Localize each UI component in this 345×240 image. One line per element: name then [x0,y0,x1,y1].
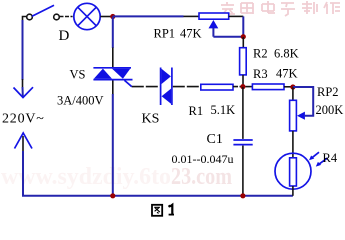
wire: RP1 right to node [229,16,244,36]
svg-text:R2: R2 [253,47,268,61]
svg-text:RP1: RP1 [154,27,176,41]
triac VS [93,68,132,80]
potentiometer RP2 body [290,100,297,131]
RP1 wiper arrow [209,20,244,37]
resistor R1 [201,84,233,90]
wire: switch to lamp [60,16,73,18]
svg-text:47K: 47K [276,67,298,81]
junction node rail/VS [110,193,115,198]
svg-text:C1: C1 [207,132,223,147]
svg-text:RP2: RP2 [317,85,339,99]
svg-text:3A/400V: 3A/400V [57,94,104,108]
wire: R2 to mid node [242,75,244,87]
R4 light arrows [309,152,328,166]
svg-text:6.8K: 6.8K [274,47,299,61]
svg-text:5.1K: 5.1K [211,103,236,117]
junction node top [110,14,115,19]
photoresistor R4 [275,153,311,196]
svg-text:23.com: 23.com [171,164,232,190]
wire: VS gate diagonal [125,80,132,86]
resistor R3 [252,84,284,90]
wire: mid node to C1 [242,87,244,139]
wire: R1 to mid node [233,86,241,88]
svg-text:220V~: 220V~ [2,112,45,127]
wire: RP2 to R4 [292,131,294,158]
switch blade [32,5,54,16]
wire: KS to R1 (dashed black) [173,86,201,88]
lamp D [74,3,100,29]
svg-text:KS: KS [142,112,160,127]
wire: lamp node down to VS [112,17,114,68]
source arrow down (220V upper) [14,87,34,98]
junction node rail/C1 [240,193,245,198]
junction node mid (R2/R3/C1) [240,84,245,89]
svg-text:R1: R1 [189,104,204,118]
svg-text:0.01--0.047u: 0.01--0.047u [172,152,234,166]
RP2 wiper arrow [297,112,305,120]
potentiometer RP1 body [199,13,229,19]
wire: C1 to rail [242,146,244,196]
watermark top: 实用电子制作 [221,1,340,16]
source arrow up (220V lower) [15,133,33,196]
diac KS [161,68,172,106]
wire: R3 to right node [284,86,291,88]
switch S contact circles [27,14,60,20]
svg-text:R3: R3 [253,67,268,81]
wire: left vertical from switch down [23,17,28,89]
wire: VS down to rail [112,81,114,196]
wire: node to R2 [242,37,244,48]
wire: gate to KS (dashed black) [132,86,160,88]
wire: top rail to RP1 [113,15,199,17]
wire: node down to RP2 [292,87,294,100]
junction node RP1/R2 [241,34,246,39]
wire: mid node to R3 [246,86,253,88]
svg-text:200K: 200K [316,103,344,117]
capacitor C1 [233,140,252,145]
svg-text:D: D [59,28,70,44]
wire: lamp to node [100,16,110,18]
junction node right (R3/RP2) [290,84,295,89]
svg-text:47K: 47K [180,27,202,41]
svg-text:VS: VS [70,68,86,82]
resistor R2 [240,48,247,75]
caption 图 1 [152,205,174,216]
svg-text:R4: R4 [323,151,338,165]
wire: bottom rail [22,195,293,197]
svg-text:www.sydzdiy.6to: www.sydzdiy.6to [1,164,171,190]
wire: node to RP2 wiper loop [293,87,313,116]
